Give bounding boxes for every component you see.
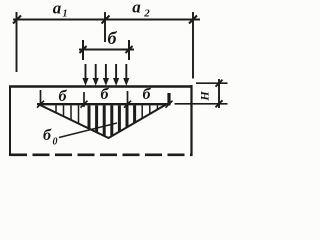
load arrow 3: [103, 64, 109, 86]
dimension end bar right (load width): [128, 40, 130, 60]
tick at a1 start: [13, 16, 21, 24]
svg-text:a: a: [53, 0, 62, 18]
extension line center (a1/a2 boundary): [104, 12, 106, 42]
label sigma0 (max stress at apex): [43, 127, 57, 148]
extension line right (end of a2): [192, 12, 194, 79]
H dimension line: [218, 79, 220, 108]
svg-text:2: 2: [143, 8, 150, 20]
svg-text:б: б: [59, 88, 68, 105]
extension bar right end (thick): [167, 93, 170, 105]
slanted tick 3 on stress line: [124, 101, 131, 108]
tick at H top: [216, 80, 223, 87]
extension tick b/v boundary: [127, 91, 129, 108]
tick at a1/a2 boundary: [102, 16, 110, 24]
element right edge: [190, 85, 192, 156]
dimension line a1+a2: [13, 19, 200, 21]
svg-text:0: 0: [53, 137, 58, 148]
extension tick v-left: [40, 90, 42, 106]
svg-text:1: 1: [63, 9, 68, 20]
slanted tick 4 on stress line: [166, 101, 173, 108]
label b center segment: [101, 86, 110, 103]
stress diagram top line: [37, 103, 171, 105]
tick at b left: [80, 46, 87, 53]
label H (rotated): [198, 91, 212, 102]
leader line from sigma0 to triangle apex: [59, 123, 117, 138]
load arrow 4: [113, 64, 119, 86]
label a1: [53, 0, 68, 20]
svg-text:б: б: [108, 28, 118, 48]
load arrow 2: [93, 64, 99, 86]
label v right segment: [143, 86, 152, 103]
label a2: [132, 0, 150, 20]
svg-text:б: б: [101, 86, 110, 103]
hatch lines thick center: [89, 105, 135, 136]
svg-text:б: б: [43, 127, 52, 144]
dimension end bar left (load width): [82, 40, 84, 60]
svg-text:a: a: [132, 0, 141, 17]
tick at H bottom: [216, 100, 223, 107]
element left edge: [9, 86, 11, 157]
tick at a2 end: [189, 16, 197, 24]
extension line left (start of a1): [16, 12, 18, 72]
tick at b right: [126, 46, 133, 53]
label b (load width): [108, 28, 118, 48]
element bottom edge (dashed): [10, 154, 193, 157]
dimension line b (load width): [79, 49, 134, 51]
svg-text:б: б: [143, 86, 152, 103]
load arrow 1: [82, 64, 88, 86]
element top edge: [9, 85, 193, 87]
slanted tick 1 on stress line: [37, 101, 44, 108]
svg-text:H: H: [198, 91, 212, 102]
slanted tick 2 on stress line: [81, 101, 88, 108]
stress triangle outline: [39, 105, 166, 139]
hatch lines thin right: [142, 105, 157, 118]
H reference line bottom: [175, 103, 228, 105]
hatch lines thin left: [56, 105, 79, 123]
label v left segment: [59, 88, 68, 105]
extension tick v/b boundary: [83, 92, 85, 107]
H reference line top: [196, 82, 228, 84]
load arrow 5: [123, 64, 129, 86]
